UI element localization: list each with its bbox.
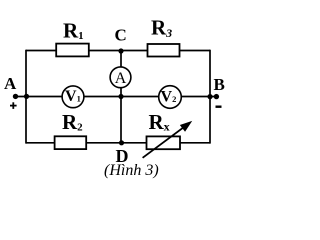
node B terminal dot [214,94,219,99]
ammeter A circle [110,67,131,88]
polarity plus [10,105,17,107]
svg-text:R3: R3 [151,16,172,41]
svg-text:A: A [4,74,17,93]
wire: right bus [209,50,211,144]
svg-text:Rx: Rx [149,110,170,134]
resistor R1 [56,44,89,57]
node C junction dot [118,48,123,53]
svg-text:(Hình 3): (Hình 3) [104,162,159,179]
svg-text:R2: R2 [62,110,83,134]
variable resistor arrowhead [181,122,191,130]
wire: center vertical C to D [120,51,122,143]
voltmeter V2 circle [159,86,182,109]
svg-text:A: A [115,70,127,87]
svg-text:C: C [115,26,127,45]
junction dot at left bus [24,94,29,99]
svg-text:B: B [214,75,225,94]
wire: middle branch A to B [16,96,217,98]
variable resistor arrow shaft [143,126,185,158]
polarity minus [216,106,222,108]
wire: top side (C row) [26,50,210,52]
resistor R3 [148,44,180,57]
svg-text:R1: R1 [63,19,84,43]
junction dot center of bridge [118,94,123,99]
resistor R2 [55,136,87,149]
node A terminal dot [13,94,18,99]
voltmeter V1 circle [62,86,84,108]
node D junction dot [119,140,124,145]
wire: bottom side (D row) [26,142,210,144]
junction dot at right bus [207,94,212,99]
wire: left bus [25,50,27,144]
resistor Rx (variable) [147,136,181,149]
